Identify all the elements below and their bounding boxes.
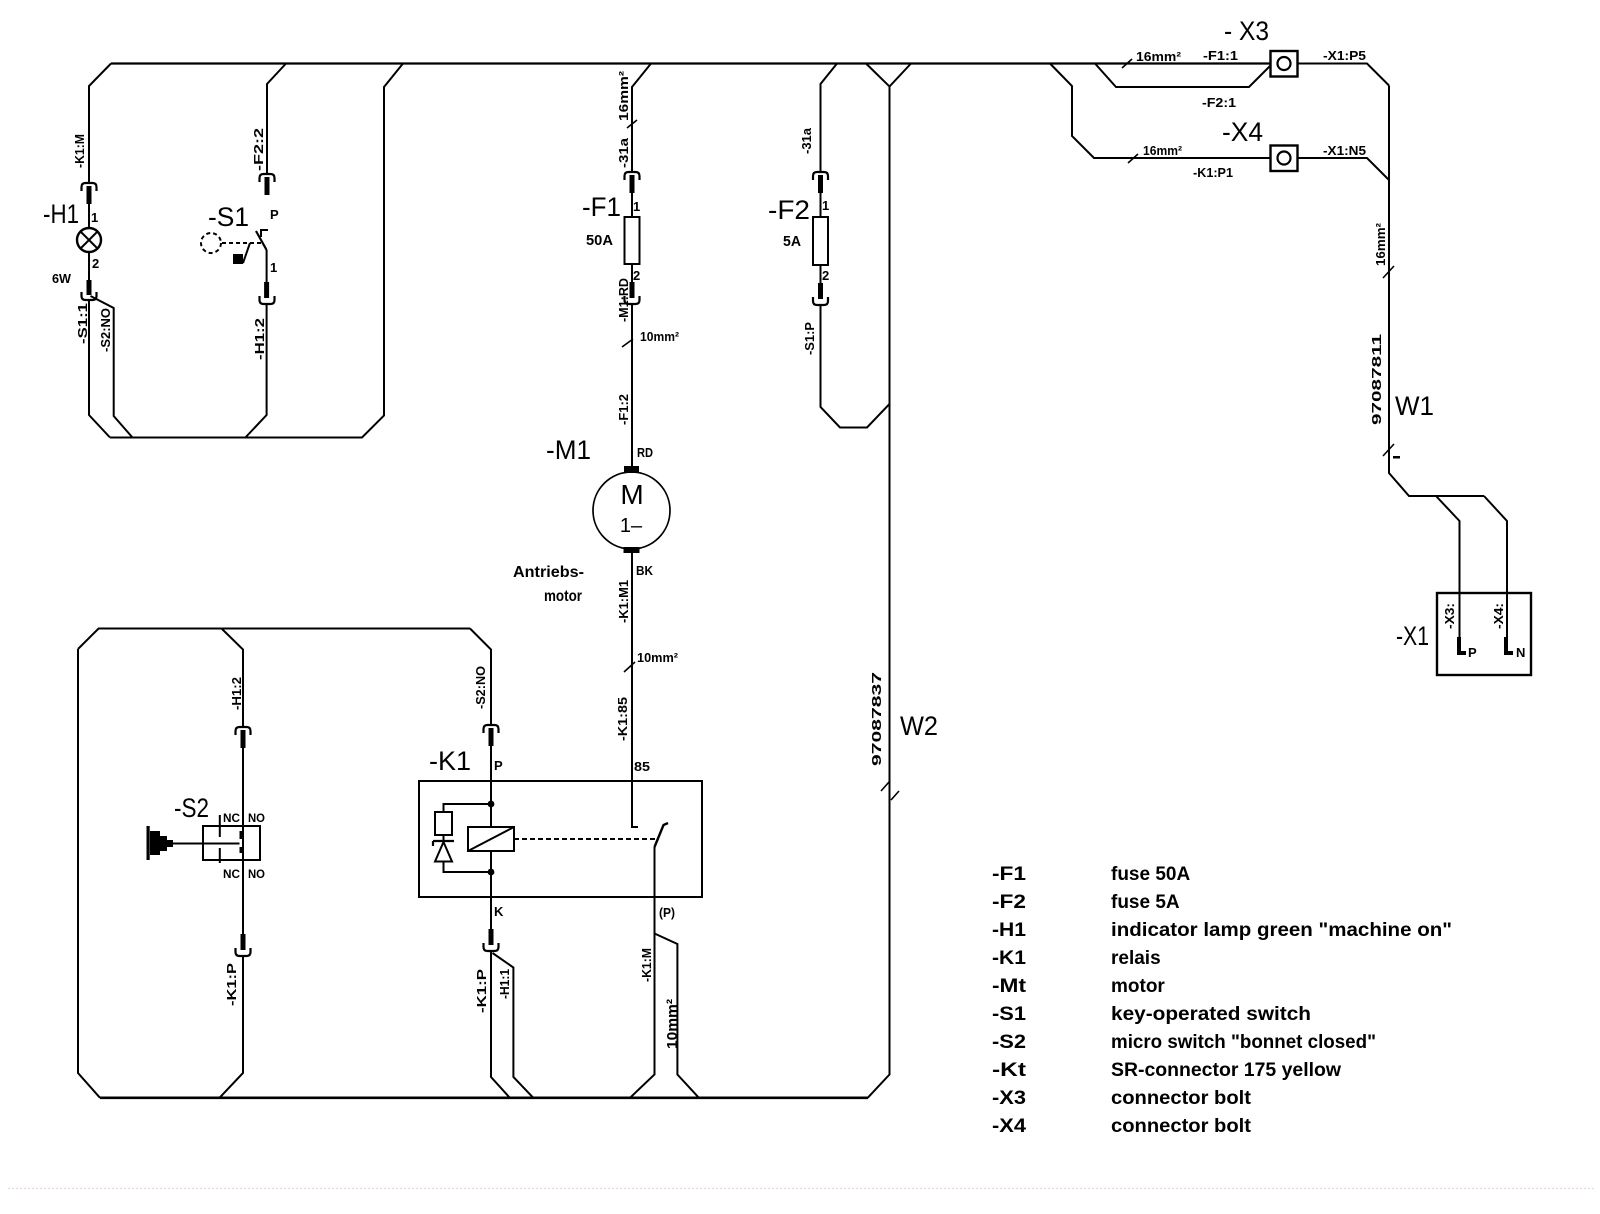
wire S1 branch from top bus	[267, 64, 286, 175]
wire X4 branch from top bus	[1050, 64, 1270, 159]
wire harness W2 vertical with V split at top bus	[866, 64, 911, 1098]
connector contact above K1 (pin bar)	[489, 728, 494, 746]
svg-text:-F2:1: -F2:1	[1202, 95, 1236, 110]
svg-text:NC: NC	[223, 867, 240, 881]
svg-text:Antriebs-: Antriebs-	[513, 564, 584, 581]
wire -F2:1 lower parallel run to X3	[1095, 64, 1270, 88]
svg-text:-M1:RD: -M1:RD	[616, 278, 631, 322]
svg-text:-H1:1: -H1:1	[497, 969, 512, 999]
svg-text:fuse 5A: fuse 5A	[1111, 892, 1180, 913]
svg-text:-K1:M: -K1:M	[639, 948, 654, 982]
svg-text:-31a: -31a	[616, 137, 631, 168]
svg-text:1: 1	[822, 198, 829, 213]
svg-text:- X3: - X3	[1224, 16, 1269, 46]
tick wire size on X4 wire	[1128, 154, 1138, 163]
connector contact above H1 (pin bar)	[87, 186, 92, 204]
svg-text:-S2: -S2	[992, 1032, 1026, 1053]
relay K1 moving contact lever	[655, 823, 669, 847]
connector contact below S2 (bracket)	[236, 948, 251, 956]
connector contact above F2 (pin bar)	[818, 175, 823, 193]
wire fuse F2 to lower contact	[820, 265, 822, 283]
key-operated switch S1	[201, 230, 268, 264]
wire right side of loop down to K1 coil P	[470, 629, 491, 726]
wire to suppressor branch	[444, 804, 492, 812]
svg-text:1–: 1–	[620, 515, 643, 537]
svg-text:SR-connector 175 yellow: SR-connector 175 yellow	[1111, 1060, 1341, 1081]
wire left side of lower-left loop	[78, 649, 100, 1098]
connector contact below K1 coil K (bracket)	[484, 943, 499, 951]
dashed actuation link from coil to contact	[514, 838, 656, 840]
svg-text:-X4:: -X4:	[1491, 603, 1506, 629]
svg-text:16mm²: 16mm²	[1373, 222, 1388, 266]
svg-text:P: P	[270, 207, 279, 222]
svg-text:W1: W1	[1395, 391, 1434, 421]
svg-text:-S2: -S2	[174, 793, 209, 823]
wire K1:K split branch to bottom bus	[493, 953, 534, 1098]
svg-text:-X1:P5: -X1:P5	[1323, 48, 1366, 63]
connector contact above F1 (pin bar)	[630, 175, 635, 193]
svg-text:-Kt: -Kt	[992, 1060, 1027, 1081]
resistor in K1 suppressor branch	[435, 812, 452, 835]
fuse F2 body 5A	[813, 217, 828, 265]
wire bottom of upper-left loop	[110, 64, 403, 438]
connector contact above S2 (pin bar)	[241, 730, 246, 748]
svg-text:-X1: -X1	[1396, 621, 1429, 651]
motor M1 lower terminal bar	[624, 547, 640, 553]
wire K1 fixed switch contact from M1	[632, 781, 638, 827]
svg-text:-M1: -M1	[546, 435, 591, 465]
fuse F1 body 50A	[625, 217, 640, 264]
terminal X1:P bar	[1459, 637, 1466, 653]
wire top edge of lower-left loop	[78, 629, 470, 650]
connector bolt X4	[1271, 146, 1298, 172]
wire lever terminal down out of K1	[654, 847, 656, 934]
svg-text:2: 2	[822, 268, 829, 283]
svg-text:50A: 50A	[586, 232, 613, 249]
connector contact below F1 (bracket)	[625, 296, 640, 304]
wire S1 down to bottom of loop	[245, 304, 266, 438]
wire (P) straight down to bottom bus	[630, 934, 655, 1098]
svg-text:-F1: -F1	[992, 864, 1027, 885]
svg-text:-Mt: -Mt	[992, 976, 1027, 997]
connector contact below F2 (pin bar)	[818, 283, 823, 299]
motor M1 upper terminal bar	[624, 466, 639, 473]
svg-text:(P): (P)	[659, 905, 675, 920]
svg-text:NC: NC	[223, 811, 240, 825]
svg-text:-H1: -H1	[43, 199, 79, 229]
svg-text:indicator lamp green "machine: indicator lamp green "machine on"	[1111, 920, 1452, 941]
micro switch S2 body	[203, 815, 260, 863]
svg-text:-F2:2: -F2:2	[251, 128, 266, 171]
svg-text:relais: relais	[1111, 948, 1161, 969]
wire contact to fuse F2	[820, 193, 822, 217]
wire X4 to harness W1	[1298, 158, 1390, 180]
svg-text:-H1:2: -H1:2	[229, 677, 244, 710]
indicator lamp H1 circle with cross	[77, 228, 101, 252]
svg-text:BK: BK	[636, 563, 654, 578]
wire F1 branch from top bus	[632, 64, 651, 173]
connector contact below S1 (pin bar)	[264, 282, 269, 298]
wire S2 branch from loop top	[222, 629, 244, 728]
connector contact below F2 (bracket)	[813, 297, 828, 305]
svg-text:connector bolt: connector bolt	[1111, 1088, 1252, 1109]
svg-text:connector bolt: connector bolt	[1111, 1116, 1252, 1137]
svg-text:NO: NO	[248, 811, 265, 825]
wire H1 down to -S1:1	[89, 300, 110, 438]
svg-text:-K1:P: -K1:P	[224, 963, 239, 1006]
tick wire size on F1-M1 wire	[622, 339, 633, 347]
svg-text:85: 85	[634, 759, 650, 774]
wire bottom bus	[100, 1097, 868, 1100]
svg-text:-K1: -K1	[992, 948, 1026, 969]
micro switch S2 plunger actuator	[147, 826, 240, 860]
connector contact above S1 (pin bar)	[265, 177, 270, 195]
connector contact below S2 (pin bar)	[241, 934, 246, 950]
faint scan artifact line	[8, 1188, 1595, 1190]
svg-text:motor: motor	[544, 588, 582, 605]
svg-text:N: N	[1516, 645, 1525, 660]
relay K1 coil	[468, 827, 514, 851]
svg-text:1: 1	[633, 199, 640, 214]
wire contact to micro switch S2	[242, 748, 244, 934]
svg-text:-S1:1: -S1:1	[75, 303, 90, 344]
wire (P) branch jog	[655, 934, 699, 1098]
svg-text:-X1:N5: -X1:N5	[1323, 143, 1366, 158]
connector bolt X3	[1271, 51, 1298, 77]
wire W1 split to X1:N	[1484, 496, 1507, 640]
svg-text:6W: 6W	[52, 271, 72, 286]
svg-text:10mm²: 10mm²	[664, 999, 681, 1049]
wire F1 to motor M1	[631, 304, 633, 466]
svg-text:5A: 5A	[783, 233, 801, 250]
wire diode to bottom junction	[444, 862, 492, 873]
svg-text:1: 1	[270, 260, 277, 275]
svg-text:-S1: -S1	[208, 202, 249, 232]
tick wire size on M1-K1 wire	[624, 662, 635, 672]
svg-text:16mm²: 16mm²	[1136, 49, 1182, 64]
wire X3 to harness W1	[1298, 64, 1390, 86]
svg-text:10mm²: 10mm²	[640, 329, 680, 344]
connector contact below S1 (bracket)	[260, 296, 275, 304]
relay K1 box	[419, 781, 702, 897]
wire lamp H1 to lower contact	[88, 252, 90, 280]
svg-text:micro switch "bonnet closed": micro switch "bonnet closed"	[1111, 1032, 1376, 1053]
svg-text:-K1:M: -K1:M	[72, 134, 87, 168]
tick wire size on W1 lower	[1383, 444, 1394, 456]
svg-text:-H1:2: -H1:2	[252, 318, 267, 360]
wire top bus	[111, 62, 1270, 64]
connector contact above S1 (bracket)	[260, 174, 275, 182]
dash below W1	[1393, 456, 1400, 459]
wire contact to relay K1 box	[490, 746, 492, 804]
connector contact above S2 (bracket)	[236, 727, 251, 735]
connector contact below H1 (pin bar)	[87, 280, 92, 295]
wire W1 split to X1:P	[1436, 496, 1460, 640]
tick wire size on X3 wire	[1122, 59, 1132, 68]
svg-text:-F2: -F2	[992, 892, 1026, 913]
wire fuse F1 to lower contact	[631, 264, 633, 282]
svg-text:97087837: 97087837	[869, 672, 884, 766]
svg-text:-K1:85: -K1:85	[615, 697, 630, 741]
wire S2 down to bottom bus	[220, 956, 244, 1098]
svg-text:P: P	[1468, 645, 1477, 660]
wire F2 down and over to harness W2	[821, 305, 890, 428]
svg-text:-F1:2: -F1:2	[616, 394, 631, 425]
wire contact to fuse F1	[631, 193, 633, 217]
terminal X1:N bar	[1506, 637, 1513, 653]
svg-text:P: P	[494, 758, 503, 773]
connector X1 box	[1437, 593, 1531, 675]
wire S1 lower terminal to contact	[266, 250, 268, 282]
svg-text:2: 2	[633, 268, 640, 283]
svg-text:-K1:P: -K1:P	[474, 969, 489, 1013]
tick wire size on F1 top wire	[627, 120, 637, 128]
wire resistor to diode	[443, 835, 445, 841]
wire contact to lamp H1	[88, 204, 90, 228]
motor M1 circle	[593, 472, 670, 549]
svg-text:-S2:NO: -S2:NO	[473, 666, 488, 709]
svg-text:-S1:P: -S1:P	[802, 322, 817, 355]
connector contact below K1 coil K (pin bar)	[489, 929, 494, 945]
svg-text:M: M	[620, 479, 643, 510]
wire F2 branch from top bus	[821, 64, 838, 173]
node junction top of coil branch	[488, 801, 495, 808]
wire harness W1 vertical	[1389, 86, 1484, 497]
svg-text:-H1: -H1	[992, 920, 1026, 941]
connector contact above F1 (bracket)	[625, 172, 640, 180]
svg-text:-F1: -F1	[582, 192, 621, 222]
svg-text:RD: RD	[637, 445, 653, 460]
svg-text:1: 1	[91, 210, 98, 225]
svg-text:-31a: -31a	[799, 127, 814, 154]
svg-text:NO: NO	[248, 867, 265, 881]
svg-text:-X4: -X4	[992, 1116, 1026, 1137]
svg-text:16mm²: 16mm²	[1143, 143, 1183, 158]
svg-text:-S2:NO: -S2:NO	[98, 308, 113, 352]
connector contact below F1 (pin bar)	[630, 282, 635, 298]
svg-text:-F1:1: -F1:1	[1203, 48, 1238, 63]
svg-text:-F2: -F2	[768, 195, 810, 225]
wire motor M1 to relay K1 fixed contact	[631, 553, 633, 781]
connector contact below H1 (bracket)	[82, 292, 97, 300]
svg-text:W2: W2	[900, 711, 938, 741]
wire coil vertical through K1	[490, 804, 492, 929]
svg-text:key-operated switch: key-operated switch	[1111, 1004, 1311, 1025]
svg-text:-X3:: -X3:	[1442, 603, 1457, 629]
node junction bottom of coil branch	[488, 869, 495, 876]
svg-text:97087811: 97087811	[1369, 334, 1384, 425]
connector contact above K1 (bracket)	[484, 725, 499, 733]
diode in K1 suppressor branch	[433, 841, 454, 862]
svg-text:2: 2	[92, 256, 99, 271]
svg-text:16mm²: 16mm²	[616, 70, 631, 121]
svg-text:fuse 50A: fuse 50A	[1111, 864, 1190, 885]
svg-text:-X4: -X4	[1222, 117, 1263, 147]
svg-text:-K1: -K1	[429, 746, 471, 776]
svg-text:10mm²: 10mm²	[637, 650, 679, 665]
svg-text:K: K	[494, 904, 504, 919]
svg-text:-K1:P1: -K1:P1	[1193, 165, 1233, 180]
tick double break marker on W2	[881, 782, 899, 800]
connector contact above F2 (bracket)	[813, 172, 828, 180]
svg-text:-K1:M1: -K1:M1	[616, 580, 631, 623]
tick wire size on W1 upper	[1383, 266, 1394, 278]
svg-text:-S1: -S1	[992, 1004, 1026, 1025]
wire H1 branch top chamfer and drop to lamp	[89, 64, 111, 184]
svg-text:-X3: -X3	[992, 1088, 1026, 1109]
wire K1:K down to bottom bus	[491, 951, 510, 1098]
wire H1 split to -S2:NO	[91, 296, 133, 438]
connector contact above H1 (bracket)	[82, 183, 97, 191]
svg-text:motor: motor	[1111, 976, 1165, 997]
